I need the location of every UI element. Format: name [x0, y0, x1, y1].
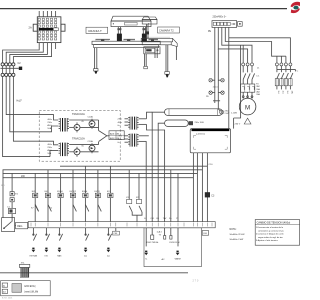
svg-text:1uA 4: 1uA 4 [157, 231, 163, 234]
transformer T3 [128, 117, 138, 130]
label EV02 2WD AL [147, 241, 159, 244]
svg-text:400v: 400v [118, 122, 122, 124]
triac V2 [88, 116, 96, 129]
wire triac upper links [69, 120, 98, 131]
wire output arrow [99, 131, 110, 142]
svg-text:0v: 0v [118, 142, 120, 144]
label 1uA4 TV [157, 231, 163, 237]
label K6 [156, 218, 159, 220]
label page number [193, 278, 199, 282]
wire cylinder feeds left [152, 112, 164, 173]
note NOTA [230, 228, 246, 241]
svg-text:SI=400v 2 kW: SI=400v 2 kW [230, 239, 245, 241]
svg-text:1.Desconectar el neutro de la: 1.Desconectar el neutro de la [256, 226, 284, 229]
svg-text:AVG: AVG [47, 124, 52, 127]
label C01 [150, 218, 155, 220]
label supply voltage [213, 17, 228, 19]
connector C3 [205, 192, 215, 197]
limit switch S4 [85, 228, 89, 241]
solenoid valve EV3Q branch [95, 170, 102, 222]
label CAMARA T2 [158, 27, 180, 33]
triac V1 [74, 121, 85, 132]
svg-text:2 7 0: 2 7 0 [193, 278, 199, 282]
heating element R1 cylinder [165, 109, 223, 116]
svg-text:1,1kW: 1,1kW [231, 113, 237, 115]
svg-text:10A: 10A [47, 127, 51, 130]
contact K7 [31, 205, 38, 211]
fuse group F2 [275, 66, 293, 90]
wire motor leads [242, 92, 253, 98]
svg-text:AC: AC [162, 258, 165, 261]
thermal overload F1 [241, 84, 261, 96]
label TRIAC10A lower [72, 136, 85, 140]
svg-text:PE: PE [208, 31, 212, 33]
svg-text:segun indica la regl. de ten: segun indica la regl. de ten [258, 236, 284, 239]
label 230 V [235, 123, 241, 125]
info box ALM AVM [109, 131, 124, 140]
terminal circles machine feed [206, 79, 224, 99]
wire T4 taps [125, 136, 147, 142]
wire phase feeder to triac box [3, 77, 59, 157]
svg-text:B.T.E. 2001: B.T.E. 2001 [2, 298, 13, 300]
solenoid connector IGO [45, 248, 49, 258]
drawing frame top border [0, 8, 287, 10]
svg-text:EV26 FD AI: EV26 FD AI [170, 241, 180, 244]
solenoid valve EV0H branch [57, 173, 63, 221]
svg-text:EV0H: EV0H [57, 191, 63, 193]
triac V3 [74, 146, 85, 157]
contact K2V [50, 207, 53, 209]
machine 2 legs [144, 45, 177, 78]
svg-text:EV3Q2: EV3Q2 [70, 191, 77, 193]
label Hu2 [17, 100, 22, 103]
label EV26 FD AI [170, 241, 180, 244]
svg-text:SI=400v 22 kW: SI=400v 22 kW [230, 234, 246, 236]
solenoid valve EV3Q2 branch [70, 170, 77, 222]
wire branch P [177, 173, 179, 221]
solenoid connector TA [144, 251, 148, 261]
svg-text:M: M [245, 104, 250, 111]
label left margin wire number [1, 185, 6, 187]
solenoid valve EVb branch [32, 173, 39, 221]
solenoid connector WARM [175, 251, 181, 261]
svg-text:EVs: EVs [45, 191, 49, 193]
terminal strip X2 [28, 222, 215, 228]
solenoid valve EVs branch [45, 170, 52, 222]
connector cylinder feed [220, 110, 224, 114]
wire Q1 vertical leads [39, 11, 55, 49]
svg-text:conexiones y conectar el pu: conexiones y conectar el pu [258, 229, 285, 232]
svg-text:CAMARA T2: CAMARA T2 [159, 28, 174, 32]
note CAMBIO DE TENSION [255, 220, 299, 246]
label PE [208, 31, 212, 33]
wire triac lower links [69, 142, 98, 152]
svg-text:24v: 24v [290, 91, 292, 94]
company logo [291, 2, 301, 13]
svg-text:EXTRAS: EXTRAS [30, 255, 38, 258]
relay contact K1 [126, 170, 132, 212]
label AC [162, 258, 165, 261]
wire branch Su [170, 170, 172, 222]
relay contact K2 [136, 173, 142, 212]
triac V4 [88, 140, 96, 153]
terminal circles X1 row 1 [1, 63, 15, 66]
label 200 [21, 176, 26, 178]
control module A1 box [190, 129, 230, 153]
svg-text:EV02 2WD AL: EV02 2WD AL [147, 241, 159, 244]
svg-text:Su: Su [169, 218, 171, 220]
svg-text:URANIA T: URANIA T [88, 29, 102, 33]
label TRIAC10A upper [72, 112, 85, 116]
contact E1 lower [10, 198, 14, 202]
motor M1 [231, 98, 256, 115]
PLC enclosure A2 [144, 228, 201, 267]
wire rail 200d [3, 177, 194, 179]
wire control box feeders [229, 38, 241, 129]
label T3 primary taps [118, 119, 122, 127]
svg-text:230 V: 230 V [235, 123, 241, 125]
limit switch S1 [33, 228, 37, 241]
heating element R2 cylinder [165, 120, 193, 126]
limit switch S3 [59, 228, 63, 241]
svg-text:|west| (M_Mk: |west| (M_Mk [25, 290, 39, 293]
relay KA box [2, 218, 15, 232]
label R2 rating [195, 122, 204, 124]
svg-text:NOTA:: NOTA: [230, 228, 237, 231]
svg-text:2x1: 2x1 [277, 91, 279, 94]
solenoid valve EV0H2 branch [82, 166, 89, 221]
svg-text:C10A: C10A [88, 140, 94, 143]
wire L1 L2 L3 N from Q1 to input terminals [3, 49, 52, 63]
module REG [16, 222, 28, 228]
wire branch E [145, 166, 147, 221]
coil C1 [7, 206, 16, 213]
machine 2 hood [142, 17, 157, 24]
svg-text:10A: 10A [47, 152, 51, 155]
svg-text:2A: 2A [29, 26, 32, 30]
contactor K1M [243, 66, 260, 84]
label P [176, 218, 178, 220]
wire branch E1 [11, 173, 13, 221]
machine 1 hood [111, 16, 151, 26]
wire branch C01 [151, 170, 153, 222]
terminal circles motor feed [242, 63, 260, 70]
main cam switch Q1 [33, 17, 65, 43]
svg-text:[+23mm]: [+23mm] [196, 134, 205, 136]
contact E1 upper [10, 192, 19, 196]
label R1 rating [225, 110, 230, 115]
connector C60 [202, 231, 208, 236]
solenoid connector Iow [107, 248, 111, 258]
machine 1 posts [117, 27, 147, 42]
svg-text:2x1: 2x1 [286, 91, 288, 94]
machine 1 table [92, 39, 160, 47]
transformer T2 [47, 143, 69, 157]
wire bottom bus [0, 272, 188, 274]
svg-text:230v 1kW: 230v 1kW [195, 122, 204, 124]
svg-text:TRIAC10A: TRIAC10A [72, 112, 85, 116]
connector C2 [18, 62, 23, 70]
label E [144, 218, 146, 220]
transformer T1 [47, 118, 69, 132]
svg-text:MAS: MAS [57, 255, 62, 258]
machine 2 display panel [144, 47, 160, 54]
svg-text:400v: 400v [118, 139, 122, 141]
svg-text:EXD:EXG|: EXD:EXG| [25, 286, 36, 288]
wire branch TAV [164, 166, 166, 221]
svg-text:TRIAC10A: TRIAC10A [72, 136, 85, 140]
svg-text:230v: 230v [118, 136, 122, 138]
label Su [169, 218, 171, 220]
svg-text:230v: 230v [118, 119, 122, 121]
limit switch S5 [108, 228, 112, 241]
supply terminal block X0 [212, 21, 242, 28]
terminal circles X1 row 2 [1, 73, 15, 76]
connector C6 below strip [113, 228, 120, 235]
svg-text:IGO: IGO [45, 256, 49, 258]
svg-text:2x1,5: 2x1,5 [213, 86, 219, 88]
connector XXL plug [19, 262, 29, 277]
svg-text:0v: 0v [118, 125, 120, 127]
svg-text:C10A: C10A [88, 116, 94, 119]
label TAV [163, 217, 167, 220]
legend box [1, 281, 51, 296]
machine 1 legs [94, 48, 158, 74]
label URANIA T [86, 27, 108, 33]
svg-text:2x1: 2x1 [281, 91, 283, 94]
wire rail 200b [3, 169, 203, 171]
labels auxiliary circuits [277, 91, 293, 94]
wire rail 200c [3, 172, 198, 174]
wire control box drops [193, 153, 207, 222]
svg-text:CAMBIO DE TENSION (400v): CAMBIO DE TENSION (400v) [257, 222, 291, 225]
transformer T4 [128, 134, 138, 147]
label T4 primary taps [118, 136, 122, 144]
machine 2 post [145, 24, 149, 38]
terminal blocks inside PLC [146, 228, 178, 247]
svg-text:AVG: AVG [47, 149, 52, 152]
label under legend [2, 298, 13, 300]
solenoid connector MAS [57, 248, 62, 258]
solenoid connector EXTRAS [30, 248, 38, 258]
delta symbol [244, 118, 251, 124]
wire REG link [15, 225, 16, 227]
svg-text:2.Conectar el bloque de conm: 2.Conectar el bloque de conm [256, 233, 284, 236]
label C10 [209, 164, 214, 166]
triac unit dashed enclosure [39, 110, 120, 161]
wire T3 T4 secondary risers [146, 112, 164, 166]
label 2A for Q1 [29, 26, 32, 30]
solenoid connector Iow [84, 248, 88, 258]
svg-text:REG: REG [17, 225, 22, 228]
svg-text:Hu2*: Hu2* [17, 100, 22, 103]
terminal circles auxiliary [275, 63, 292, 66]
machine 2 table [141, 37, 177, 47]
solenoid valve EV1 branch [107, 166, 113, 221]
svg-text:EV3Q: EV3Q [95, 191, 101, 193]
wire supply feeders [213, 27, 290, 111]
wire rail 200a [60, 165, 207, 167]
wire T3 taps [125, 119, 147, 125]
svg-text:230v/400v 3~: 230v/400v 3~ [213, 17, 228, 19]
wire auxiliary bus [277, 69, 299, 72]
limit switch S2 [46, 228, 50, 241]
svg-text:3.Ajustar el rele termico: 3.Ajustar el rele termico [256, 239, 279, 242]
wire bus to connector C2 [0, 66, 18, 73]
svg-text:WARM: WARM [175, 257, 181, 260]
wire K1 K2 join [132, 212, 142, 222]
wire branch K0 [2, 170, 4, 218]
wire branch K6 [157, 173, 159, 221]
svg-text:EV0H: EV0H [82, 191, 88, 193]
